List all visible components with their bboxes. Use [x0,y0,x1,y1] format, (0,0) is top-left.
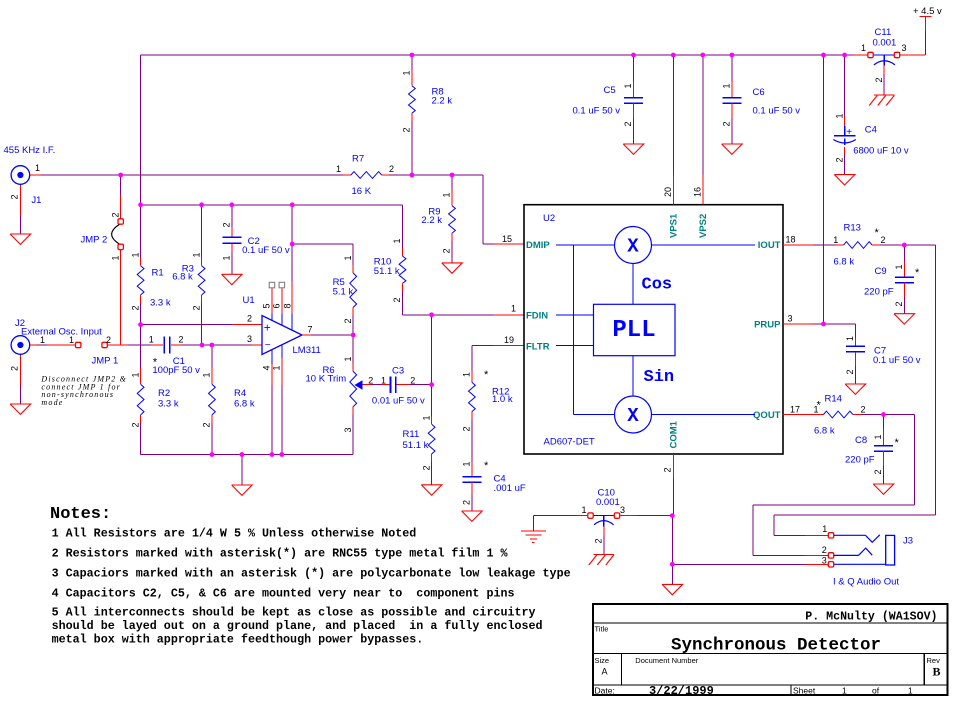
svg-text:1: 1 [861,43,866,53]
svg-text:1: 1 [69,335,74,345]
svg-text:2: 2 [861,405,866,415]
U2 internal multiplier X top [615,227,652,264]
svg-text:JMP 1: JMP 1 [92,356,119,367]
svg-text:1: 1 [894,264,904,269]
junction (202,345) [200,343,205,348]
svg-text:I & Q Audio Out: I & Q Audio Out [833,577,899,588]
wire J2 pin2 [19,355,21,385]
wire J1 pin2 [19,185,21,216]
wire FLTR [472,345,493,347]
svg-text:15: 15 [502,234,512,244]
svg-text:C4: C4 [865,125,877,136]
svg-text:1: 1 [822,524,827,534]
capacitor C10 feedthrough [637,515,672,517]
junction (904.3,245) [902,243,907,248]
svg-text:1: 1 [130,372,140,377]
ground C4 6800uF [834,175,855,185]
svg-text:Document Number: Document Number [635,656,698,665]
junction (633.5,55) [631,53,636,58]
svg-text:2: 2 [462,500,472,505]
resistor R1 [140,258,142,266]
svg-text:2: 2 [343,318,353,323]
svg-text:10 K Trim: 10 K Trim [306,374,347,385]
svg-text:16: 16 [693,187,703,197]
ground R11 [421,485,442,495]
svg-text:AD607-DET: AD607-DET [544,437,595,448]
svg-text:51.1 k: 51.1 k [403,440,429,451]
svg-text:1: 1 [402,70,412,75]
svg-text:1: 1 [392,238,402,243]
resistor R9 [451,175,453,190]
resistor R11 [431,385,433,417]
junction (883.5,414.5) [881,412,886,417]
svg-text:2: 2 [822,545,827,555]
wire R13 node to J3 [904,244,935,246]
svg-text:1: 1 [722,83,732,88]
svg-text:−: − [265,340,271,351]
ground C5 [623,144,644,154]
svg-text:2: 2 [130,422,140,427]
svg-text:A: A [602,667,608,677]
ground C6 [722,144,743,154]
svg-text:17: 17 [790,405,800,415]
svg-text:1: 1 [191,252,201,257]
resistor R8 [411,55,413,70]
svg-text:1: 1 [623,83,633,88]
svg-text:1.0 k: 1.0 k [492,394,513,405]
ground J2 [10,404,31,414]
svg-text:4: 4 [262,365,272,370]
svg-text:0.1 uF 50 v: 0.1 uF 50 v [873,355,921,366]
junction (823.5,324) [821,322,826,327]
svg-text:3: 3 [343,427,353,432]
svg-text:3.3 k: 3.3 k [150,298,171,309]
trimmer R6 10K [352,335,354,363]
junction (211.9,454.5) [210,452,215,457]
IC U2 AD607-DET box [524,205,783,454]
svg-text:.001 uF: .001 uF [494,483,526,494]
wire QOUT node to J3 [884,414,915,416]
capacitor C9 [903,245,905,261]
svg-text:1: 1 [202,372,212,377]
op-amp U1 LM311 [262,316,302,355]
capacitor C2 [231,205,233,227]
svg-text:2: 2 [663,467,673,472]
jumper JMP2 [120,175,122,195]
ground C9 [894,314,915,324]
svg-text:3/22/1999: 3/22/1999 [649,684,714,698]
svg-text:Date:: Date: [595,686,615,696]
svg-text:6: 6 [272,303,282,308]
svg-text:18: 18 [786,235,796,245]
svg-text:0.001: 0.001 [873,38,897,49]
svg-text:2 Resistors marked with asteri: 2 Resistors marked with asterisk(*) are … [52,547,509,561]
svg-text:3.3 k: 3.3 k [158,399,179,410]
capacitor C4 6800uF [844,55,846,116]
junction (823.5,55) [821,53,826,58]
svg-text:0.1 uF 50 v: 0.1 uF 50 v [242,245,290,256]
wire pin8 supply [291,205,293,281]
junction (140.6,204.8) [138,202,143,207]
wire U1 output [302,334,311,336]
U1 pins 5 6 8 [271,288,273,314]
svg-text:1: 1 [462,461,472,466]
svg-text:2: 2 [873,469,883,474]
capacitor C1 [163,337,165,354]
svg-text:*: * [875,227,880,239]
U2 pin COM1 [672,454,674,478]
svg-text:VPS2: VPS2 [698,214,709,238]
junction (231.8,204.8) [229,202,234,207]
svg-text:0.1 uF 50 v: 0.1 uF 50 v [753,106,801,117]
svg-text:Sheet: Sheet [793,686,816,696]
capacitor C6 [731,55,733,82]
chassis ground C10 [594,554,615,556]
svg-text:1: 1 [272,365,282,370]
svg-text:6.8 k: 6.8 k [172,272,193,283]
svg-text:1: 1 [381,376,386,386]
svg-text:3 Capaciors marked with an ast: 3 Capaciors marked with an asterisk (*) … [52,567,571,581]
svg-text:1: 1 [40,335,45,345]
svg-text:2: 2 [623,121,633,126]
svg-text:VPS1: VPS1 [669,213,680,238]
svg-text:*: * [915,267,920,279]
svg-text:X: X [627,405,639,427]
capacitor C11 feedthrough [853,54,868,56]
ground bottom rail [232,485,253,495]
U2 internal wiring [556,244,615,246]
wire to DMIP [482,175,484,244]
resistor R2 [140,325,142,369]
wire FDIN [403,314,494,316]
svg-text:COM1: COM1 [669,420,680,448]
wire -input stub [251,344,262,346]
wire COM1 node [671,516,673,565]
svg-text:6.8 k: 6.8 k [234,399,255,410]
svg-text:Cos: Cos [642,276,673,295]
svg-text:*: * [484,369,489,381]
ground C8 [873,484,894,494]
svg-text:*: * [895,437,900,449]
resistor R4 [211,345,213,368]
svg-text:+: + [846,127,852,138]
svg-text:LM311: LM311 [293,345,321,356]
junction (353.2,335) [351,333,356,338]
junction (672.3,515.6) [670,513,675,518]
resistor R7 [343,174,351,176]
svg-text:1: 1 [343,255,353,260]
svg-text:1: 1 [511,304,516,314]
wire J2 pin1 [30,344,36,346]
resistor R3 [201,205,203,258]
svg-text:100pF 50 v: 100pF 50 v [152,365,200,376]
resistor R5 [352,244,354,265]
svg-text:2: 2 [202,422,212,427]
svg-text:+ 4.5 v: + 4.5 v [913,6,942,17]
svg-text:3: 3 [788,314,793,324]
svg-text:5.1 k: 5.1 k [333,287,354,298]
svg-text:1: 1 [462,372,472,377]
wire R5 top [292,243,353,245]
svg-text:51.1 k: 51.1 k [374,266,400,277]
svg-text:6800 uF 10 v: 6800 uF 10 v [853,146,909,157]
svg-text:7: 7 [308,325,313,335]
wire PRUP [783,323,813,325]
svg-text:2: 2 [130,305,140,310]
svg-text:should be layed out on a groun: should be layed out on a ground plane, a… [52,619,543,633]
svg-text:6.8 k: 6.8 k [814,426,835,437]
wire QOUT [783,414,813,416]
svg-text:PLL: PLL [612,317,655,344]
svg-text:1: 1 [833,235,838,245]
svg-text:*: * [817,400,822,412]
connector J1 [11,166,30,185]
capacitor C3 [390,376,392,393]
svg-text:2: 2 [247,314,252,324]
wire C10 to earth [533,515,575,517]
junction (452,175) [450,173,455,178]
svg-text:2: 2 [894,301,904,306]
wire R1 to +input [140,303,142,325]
svg-text:5 All interconnects should be: 5 All interconnects should be kept as cl… [52,606,536,620]
svg-text:R14: R14 [825,394,842,405]
svg-text:R13: R13 [844,223,861,234]
U2 pin VPS1 [672,55,674,175]
svg-text:PRUP: PRUP [754,320,781,331]
svg-text:2: 2 [9,366,19,371]
junction (271.9,454.5) [270,452,275,457]
svg-text:1: 1 [834,113,844,118]
wire ground stem [241,455,243,486]
svg-text:Title: Title [595,625,609,634]
svg-text:1: 1 [336,164,341,174]
svg-text:JMP 2: JMP 2 [81,235,108,246]
svg-text:C8: C8 [855,435,867,446]
svg-text:C3: C3 [392,365,404,376]
connector J3 phone jack [828,533,833,538]
earth ground [521,530,546,532]
svg-text:0.01 uF 50 v: 0.01 uF 50 v [372,396,425,407]
svg-text:P. McNulty (WA1SOV): P. McNulty (WA1SOV) [805,611,937,624]
svg-text:2: 2 [110,212,120,217]
svg-text:2.2 k: 2.2 k [432,96,453,107]
svg-text:C6: C6 [753,87,765,98]
svg-text:3: 3 [247,334,252,344]
U2 internal multiplier X bottom [615,396,652,433]
svg-text:1: 1 [873,434,883,439]
wire J1 pin1 [30,174,41,176]
svg-text:2: 2 [834,157,844,162]
svg-text:2: 2 [179,335,184,345]
svg-text:FLTR: FLTR [526,342,550,353]
svg-text:C9: C9 [875,266,887,277]
svg-text:1: 1 [421,415,431,420]
svg-text:1: 1 [149,335,154,345]
svg-text:R4: R4 [234,388,246,399]
junction (140.6,324.7) [138,322,143,327]
junction (672.3,564.3) [670,562,675,567]
junction (411.9,175) [410,173,415,178]
wire IOUT [783,244,813,246]
svg-text:1: 1 [908,686,913,696]
svg-text:16 K: 16 K [352,186,372,197]
junction (241.9,454.5) [240,452,245,457]
svg-text:1: 1 [130,252,140,257]
svg-text:mode: mode [41,398,63,407]
ground J1 [10,234,31,244]
capacitor C4 .001uF [471,462,473,477]
svg-text:2: 2 [881,235,886,245]
resistor R14 [813,414,824,416]
resistor R10 [402,205,404,248]
ground C2 [222,274,243,284]
svg-text:+: + [264,320,271,334]
svg-text:U1: U1 [243,295,255,306]
svg-text:C11: C11 [875,27,892,38]
svg-text:6.8 k: 6.8 k [834,257,855,268]
svg-text:2: 2 [462,426,472,431]
svg-text:1: 1 [842,686,847,696]
junction (431.6,384.7) [429,382,434,387]
title block [593,604,948,695]
capacitor C8 [883,415,885,431]
svg-text:C5: C5 [604,85,616,96]
svg-text:2: 2 [106,335,111,345]
svg-text:19: 19 [504,335,514,345]
svg-text:1: 1 [582,505,587,515]
wire C3 node to FDIN [431,315,433,385]
svg-text:Size: Size [595,656,610,665]
svg-text:R2: R2 [158,388,170,399]
ground R9 [442,263,463,273]
wire +4.5 to PRUP [823,55,825,324]
junction (844.6,55) [842,53,847,58]
ground C4 [462,511,483,521]
svg-text:R11: R11 [403,429,420,440]
U2 internal PLL box [594,304,676,355]
svg-text:2: 2 [9,194,19,199]
svg-text:2: 2 [410,376,415,386]
svg-text:Notes:: Notes: [50,505,111,524]
junction (731.9,55) [730,53,735,58]
svg-text:2: 2 [389,164,394,174]
svg-text:3: 3 [822,555,827,565]
svg-text:Sin: Sin [644,368,675,387]
svg-text:X: X [627,236,639,258]
svg-text:1: 1 [343,356,353,361]
svg-text:J1: J1 [31,195,41,206]
svg-text:DMIP: DMIP [526,240,550,251]
wire JMP1 to C1 [128,344,151,346]
svg-text:220 pF: 220 pF [864,287,894,298]
junction (120.7,175) [118,173,123,178]
svg-text:2: 2 [594,538,604,543]
power +4.5v symbol [920,16,932,18]
svg-text:2: 2 [421,465,431,470]
connector J2 [11,336,30,355]
svg-text:4 Capacitors C2, C5, & C6 are: 4 Capacitors C2, C5, & C6 are mounted ve… [52,587,515,601]
junction (411.9,55) [410,53,415,58]
svg-text:8: 8 [282,303,292,308]
wire bottom rail [141,454,354,456]
svg-text:1: 1 [845,336,855,341]
svg-text:0.001: 0.001 [596,497,620,508]
svg-text:2: 2 [222,222,232,227]
svg-text:QOUT: QOUT [753,410,781,421]
junction (673.3,55) [671,53,676,58]
R6 wiper arrow [355,380,363,390]
resistor R13 [836,244,844,246]
capacitor C5 [633,55,635,82]
svg-text:2: 2 [392,297,402,302]
chassis ground of C11 [874,94,895,96]
svg-text:1 All Resistors are 1/4 W 5 %: 1 All Resistors are 1/4 W 5 % Unless oth… [52,527,417,541]
svg-text:metal box with appropriate fee: metal box with appropriate feedthough po… [52,633,424,647]
svg-text:U2: U2 [543,213,555,224]
junction (281.8,454.5) [279,452,284,457]
svg-text:3: 3 [902,43,907,53]
svg-text:R7: R7 [352,154,364,165]
svg-text:Synchronous Detector: Synchronous Detector [671,636,881,656]
svg-text:B: B [933,665,941,679]
svg-text:1: 1 [222,255,232,260]
svg-text:2.2 k: 2.2 k [421,215,442,226]
jumper JMP1 [76,342,81,347]
junction (292.2,244) [290,242,295,247]
svg-text:2: 2 [368,376,373,386]
svg-text:1: 1 [110,255,120,260]
svg-text:2: 2 [442,248,452,253]
svg-text:R1: R1 [152,268,164,279]
svg-text:1: 1 [35,163,40,173]
U2 pin VPS2 [702,55,704,175]
wire vertical +4.5 to lower rail [140,55,142,258]
capacitor C7 [854,324,856,338]
U1 pins 4 1 [271,350,273,364]
svg-text:5: 5 [262,303,272,308]
svg-text:20: 20 [663,187,673,197]
svg-text:2: 2 [845,369,855,374]
junction (292.2,204.8) [290,202,295,207]
svg-text:2: 2 [722,121,732,126]
svg-text:2: 2 [191,305,201,310]
svg-text:220 pF: 220 pF [845,455,875,466]
wire +4.5v second rail [141,204,403,206]
junction (431.6,314.8) [429,312,434,317]
resistor R12 [471,346,473,371]
ground C7 [845,384,866,394]
wire +4.5v top rail [141,54,853,56]
svg-text:3: 3 [620,505,625,515]
junction (211.9,345) [210,343,215,348]
wire +input [141,324,233,326]
svg-text:FDIN: FDIN [526,311,548,322]
svg-text:2: 2 [874,77,884,82]
svg-text:1: 1 [442,192,452,197]
svg-text:J3: J3 [903,536,913,547]
svg-text:of: of [872,686,880,696]
svg-text:0.1 uF 50 v: 0.1 uF 50 v [573,106,621,117]
wire COM1 to J3 pin3 [672,563,805,565]
svg-text:455 KHz I.F.: 455 KHz I.F. [4,145,56,156]
ground COM1 [662,584,683,594]
svg-text:External Osc. Input: External Osc. Input [21,327,102,338]
svg-text:IOUT: IOUT [758,240,781,251]
svg-text:*: * [484,460,489,472]
junction (201.6,204.8) [199,202,204,207]
svg-text:2: 2 [402,127,412,132]
junction (702.8,55) [700,53,705,58]
